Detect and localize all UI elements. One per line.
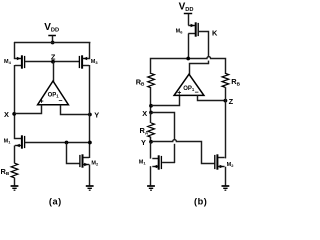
wire RD bottom through Z to M2 drain (b) [225,87,227,158]
svg-text:OP1: OP1 [183,86,195,92]
wire M6 drain to line A (b) [188,34,190,60]
wire M1 source to ground (b) [150,166,152,185]
svg-text:Y: Y [141,138,146,147]
svg-text:Y: Y [94,110,99,119]
svg-text:X: X [4,110,9,119]
wire X to RA (b) [150,113,152,124]
svg-text:(a): (a) [49,196,62,206]
transistor M4 (PMOS) [4,55,25,68]
svg-text:(b): (b) [194,196,207,206]
wire RA to Y (b) [150,137,152,142]
ground below M1 (b) [147,186,155,190]
resistor RA middle (b) [140,123,155,137]
ground below M2 (b) [222,186,230,190]
transistor M2 (NMOS) (b) [215,154,234,169]
wire node Z to op-amp output (a) [53,62,55,82]
wire rail to M4 source (a) [14,42,16,59]
svg-text:M6: M6 [176,29,184,35]
junction dot gate bus on Y branch (a) [88,141,92,145]
transistor M1 (NMOS) [4,135,25,148]
wire op-amp - input to node Y (a) [61,105,90,115]
wire rail to M3 source (a) [89,42,91,59]
svg-text:M1: M1 [4,139,12,145]
wire M1 source to RB (a) [14,146,16,164]
svg-text:+: + [177,90,181,97]
wire Y line with hop to M2 gate (b) [151,140,214,164]
wire M2 source to ground (a) [89,165,91,186]
node X (a) [4,110,16,119]
transistor M6 (PMOS) [176,22,199,36]
resistor RB [1,163,18,178]
resistor RB right (b) [222,73,241,87]
wire VDD rail (a) [14,42,90,44]
junction dot + input tap (b) [149,104,153,108]
svg-text:M2: M2 [227,162,235,168]
wire node K riser lower (b) [208,61,210,65]
wire M2 source to ground (b) [225,167,227,186]
ground below M2 (a) [86,186,94,190]
svg-text:M1: M1 [139,160,147,166]
wire node X to M1 gate riser upper (b) [151,113,174,140]
svg-text:Z: Z [51,52,56,61]
transistor M2 (NMOS) [80,154,99,167]
svg-text:K: K [212,29,218,38]
junction dot VDD on rail (a) [51,41,55,45]
junction dot M6 drain on line A (b) [186,57,190,61]
junction dot M2 gate tap on bus (a) [65,141,69,145]
VDD terminal (a) [48,36,56,44]
transistor M3 (PMOS) [79,55,98,68]
wire op-amp - input to node Z (b) [198,95,226,100]
transistor M1 (NMOS) (b) [139,155,162,169]
node Z (b) [224,97,234,106]
node Z (a) [51,52,56,63]
node Y (a) [88,110,99,119]
wire line A with crossover hop (b) [151,57,226,74]
wire op-amp + input to node X (a) [14,105,41,114]
wire gate line M4-M3 node Z (a) [25,61,80,63]
node Y (b) [141,138,153,147]
svg-text:−: − [58,98,62,105]
svg-text:Z: Z [229,97,234,106]
svg-text:M4: M4 [4,59,12,65]
wire M1 gate riser lower (b) [174,144,176,163]
wire M3 drain down through Y to M2 drain (a) [89,65,91,158]
wire M2 gate tap (a) [67,143,80,164]
wire M4 drain to M1 drain through node X (a) [14,65,16,139]
wire op-amp output route (b) [190,64,209,75]
svg-text:+: + [40,98,44,105]
node X (b) [142,109,153,118]
ground below RB (a) [11,186,19,190]
wire RB bottom to node X (b) [150,88,152,113]
wire Y to M1 drain (b) [150,142,152,159]
wire M1 gate lead (b) [162,162,175,164]
op-amp OP1 (a) [38,81,69,105]
wire op-amp + input to tap (b) [151,95,179,105]
svg-text:M2: M2 [91,160,99,166]
VDD terminal (b) [184,14,192,26]
resistor RB left (b) [136,73,155,87]
wire RB to ground (a) [14,178,16,186]
svg-text:X: X [142,109,147,118]
svg-text:M3: M3 [91,59,99,65]
wire gate bus M1/M2 (a) [25,142,90,144]
wire M6 gate to node K riser upper (b) [199,32,209,57]
op-amp OP1 (b) [174,74,204,97]
